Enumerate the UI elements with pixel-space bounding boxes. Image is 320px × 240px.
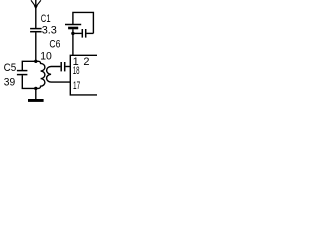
wire node A to C5 branch	[22, 61, 36, 70]
svg-text:C6: C6	[49, 38, 60, 50]
wire C6 to pin 18	[66, 66, 71, 68]
node B junction dot	[34, 87, 37, 90]
wire antenna to C1	[35, 0, 37, 28]
transformer T1 secondary winding	[47, 67, 71, 83]
capacitor C6	[61, 62, 64, 71]
wire node B to ground	[35, 88, 37, 99]
svg-text:17: 17	[73, 80, 80, 92]
antenna	[31, 0, 41, 10]
wire battery negative to U1 pin 1	[72, 29, 74, 55]
svg-text:10: 10	[40, 51, 52, 63]
svg-text:18: 18	[73, 65, 80, 77]
svg-text:39: 39	[4, 77, 15, 89]
wire battery top rail	[73, 12, 94, 33]
node C junction dot	[71, 32, 74, 35]
transformer T1 primary winding	[36, 61, 45, 88]
wire C1 to node A	[35, 32, 37, 61]
capacitor C5	[17, 71, 28, 75]
svg-text:C5: C5	[4, 62, 17, 74]
capacitor C1	[30, 29, 41, 32]
IC U1 box	[70, 55, 97, 95]
ground	[28, 99, 44, 102]
wire node C to bypass capacitor	[73, 32, 82, 34]
node A junction dot	[34, 60, 37, 63]
bypass capacitor	[82, 29, 85, 38]
svg-text:C1: C1	[41, 13, 51, 25]
wire bypass capacitor to right rail	[87, 32, 94, 34]
battery B1	[65, 25, 81, 30]
svg-text:2: 2	[83, 56, 89, 68]
wire C5 to node B	[22, 75, 36, 88]
svg-text:3.3: 3.3	[42, 24, 57, 36]
